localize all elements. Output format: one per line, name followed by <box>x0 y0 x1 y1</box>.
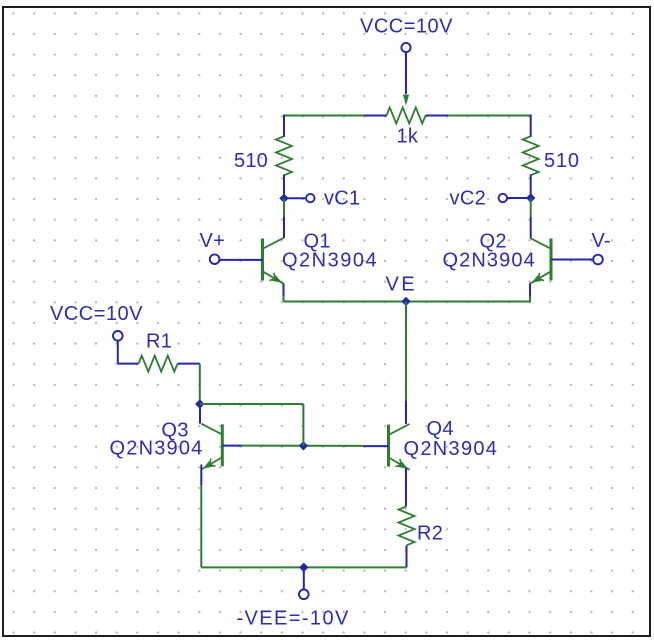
svg-text:510: 510 <box>234 150 268 172</box>
svg-text:-VEE=-10V: -VEE=-10V <box>237 608 350 630</box>
svg-text:R2: R2 <box>417 523 443 545</box>
svg-text:VCC=10V: VCC=10V <box>360 16 453 38</box>
svg-text:vC2: vC2 <box>450 188 486 210</box>
svg-text:VE: VE <box>386 274 417 296</box>
svg-text:V+: V+ <box>200 230 226 252</box>
svg-text:Q2N3904: Q2N3904 <box>404 438 499 460</box>
svg-text:VCC=10V: VCC=10V <box>50 303 143 325</box>
svg-text:R1: R1 <box>146 331 172 353</box>
svg-text:V-: V- <box>592 230 612 252</box>
svg-text:1k: 1k <box>397 126 419 148</box>
svg-text:Q2N3904: Q2N3904 <box>443 250 536 272</box>
svg-text:Q4: Q4 <box>427 418 454 440</box>
svg-text:510: 510 <box>544 150 580 172</box>
svg-text:vC1: vC1 <box>324 188 360 210</box>
svg-text:Q2N3904: Q2N3904 <box>282 250 378 272</box>
svg-text:Q2N3904: Q2N3904 <box>109 438 203 460</box>
